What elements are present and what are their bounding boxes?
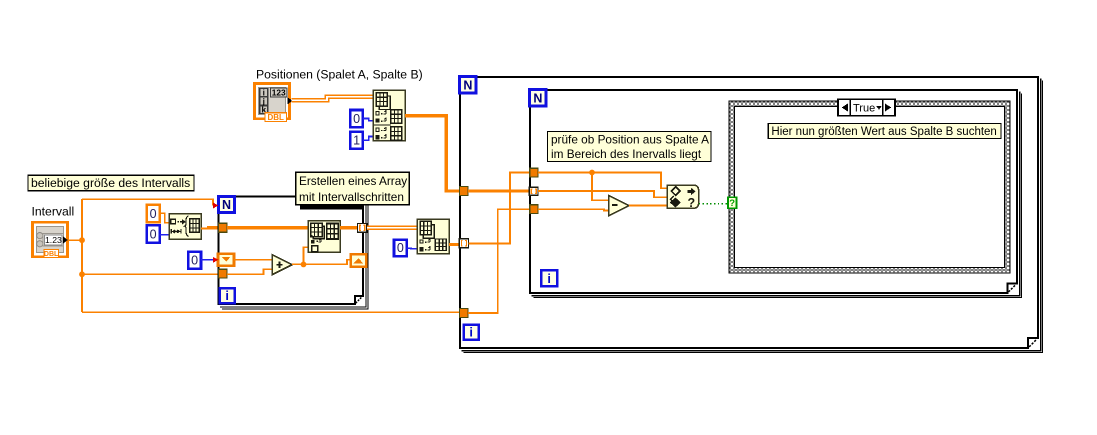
tunnel auto-index intervals in [] (outer) — [459, 239, 468, 248]
constant 0 blue (dimension, Initialize Array) — [147, 225, 160, 243]
wire position to In Range x input — [538, 191, 667, 197]
node Subtract — [609, 195, 629, 215]
wire 2D array to Index Array 2 — [367, 225, 418, 230]
wire dimension constant to Initialize Array — [160, 234, 170, 236]
case structure border — [729, 101, 1010, 273]
svg-text:?: ? — [687, 196, 695, 210]
wire constant 1 to Index Array 1 — [363, 137, 374, 141]
label Erstellen eines Array mit Intervallschritten — [300, 205, 364, 210]
wire Build Array to auto-index tunnel — [340, 226, 358, 229]
shift register right (up arrow) — [351, 254, 367, 266]
tunnel array in (small loop) — [219, 223, 227, 232]
wire interval bound to In Range upper input — [538, 173, 667, 189]
iteration terminal i (small loop) — [220, 288, 235, 303]
wire Intervall to inner bottom tunnel — [468, 209, 530, 313]
svg-text:N: N — [533, 91, 542, 105]
svg-text:im Bereich des Inervalls liegt: im Bereich des Inervalls liegt — [551, 147, 702, 161]
loop count terminal N (outer loop) — [460, 77, 477, 94]
iteration terminal i (inner loop) — [541, 270, 557, 286]
shift register left (down arrow) — [218, 254, 234, 266]
wire intervals row to outer auto-index tunnel — [449, 243, 460, 246]
label Hier nun groessten Wert aus Spalte B suchten — [768, 124, 1001, 139]
wire 2D array Positionen to Index Array 1 — [292, 97, 375, 101]
coercion dot at N — [213, 203, 219, 209]
control Positionen 2D array DBL — [254, 84, 292, 122]
node Initialize Array — [169, 214, 201, 239]
tunnel Intervall in (outer bottom) — [460, 309, 468, 318]
svg-text:prüfe ob Position aus Spalte A: prüfe ob Position aus Spalte A — [551, 132, 709, 146]
node Add — [272, 255, 292, 275]
for loop inner: frame — [530, 90, 1017, 293]
node Build Array — [308, 221, 340, 252]
node Index Array 1 — [373, 90, 405, 141]
svg-text:Hier nun größten Wert aus Spal: Hier nun größten Wert aus Spalte B sucht… — [771, 126, 996, 138]
tunnel Intervall in (small loop) — [219, 269, 227, 278]
control Intervall DBL — [32, 222, 67, 258]
svg-text:0: 0 — [150, 228, 157, 242]
wire element constant to Initialize Array — [160, 213, 170, 222]
svg-text:mit Intervallschritten: mit Intervallschritten — [299, 190, 404, 204]
constant 0 blue (shift register init) — [188, 252, 201, 269]
svg-text:Intervall: Intervall — [32, 204, 75, 218]
svg-text:Erstellen eines Array: Erstellen eines Array — [299, 174, 407, 188]
wire column A array to outer loop tunnel — [405, 116, 460, 191]
constant 0 blue (row index, Index Array 2) — [394, 240, 407, 257]
svg-text:Positionen (Spalet A, Spalte B: Positionen (Spalet A, Spalte B) — [256, 68, 423, 82]
constant 0 blue (index 0, Index Array 1) — [350, 110, 363, 127]
svg-text:DBL: DBL — [44, 251, 59, 258]
wire constant 0 to Index Array 1 — [363, 119, 374, 121]
label pruefe ob Position aus Spalte A im Bereich des Inervalls liegt — [548, 131, 711, 161]
svg-text:1: 1 — [353, 133, 360, 147]
svg-text:N: N — [222, 198, 231, 212]
svg-text:i: i — [469, 325, 473, 340]
wire Intervall distribution — [69, 239, 83, 241]
tunnel positions array in (outer) — [460, 187, 468, 196]
wire Add output to shift register right — [292, 260, 351, 265]
node Index Array 2 — [417, 219, 449, 253]
svg-text:0: 0 — [191, 253, 198, 267]
tunnel Intervall in (inner bottom) — [530, 205, 538, 214]
case selector label True — [838, 99, 895, 115]
iteration terminal i (outer loop) — [464, 325, 479, 340]
svg-text:0: 0 — [150, 207, 157, 221]
for loop Erstellen eines Array: frame — [219, 196, 364, 304]
selector terminal ? — [728, 197, 736, 209]
coercion dot at shift register — [213, 257, 219, 263]
svg-text:?: ? — [729, 198, 735, 209]
svg-text:DBL: DBL — [267, 113, 284, 122]
svg-text:N: N — [463, 78, 472, 92]
wire Intervall to Subtract — [538, 209, 609, 210]
label beliebige groesse des Intervalls — [28, 175, 194, 191]
wire branch interval bound to Subtract — [592, 173, 609, 201]
wire Initialize Array to loop tunnel — [201, 227, 207, 230]
wire array through loop to Build Array — [227, 226, 308, 229]
svg-text:0: 0 — [353, 112, 360, 126]
wire tunnel to Add — [227, 269, 273, 274]
wire positions array to inner auto-index tunnel — [468, 189, 530, 192]
node In Range and Coerce — [667, 185, 698, 210]
constant 0 orange (element, Initialize Array) — [147, 205, 160, 223]
wire boolean In Range to case selector — [699, 203, 728, 205]
svg-text:i: i — [547, 271, 551, 286]
svg-text:1.23: 1.23 — [45, 235, 62, 245]
wire shift register init — [201, 259, 213, 261]
wire interval bound to inner top tunnel — [468, 173, 530, 244]
wire row index constant — [407, 247, 418, 250]
svg-text:0: 0 — [397, 241, 404, 255]
svg-text:i: i — [225, 288, 229, 303]
wire shift register to Add — [234, 259, 273, 261]
wire Subtract to In Range lower input — [629, 205, 668, 207]
constant 1 blue (index 1, Index Array 1) — [350, 132, 363, 149]
loop count terminal N (small loop) — [218, 196, 234, 212]
svg-text:beliebige größe des Intervalls: beliebige größe des Intervalls — [31, 176, 190, 190]
loop count terminal N (inner loop) — [530, 90, 547, 107]
for loop outer: frame — [460, 77, 1038, 348]
tunnel interval bound in (inner top) — [530, 168, 538, 177]
tunnel auto-index position in [] (inner) — [529, 187, 538, 195]
svg-text:True: True — [853, 102, 875, 114]
svg-text:123: 123 — [272, 88, 286, 98]
tunnel auto-index out [] (small loop) — [358, 224, 367, 233]
